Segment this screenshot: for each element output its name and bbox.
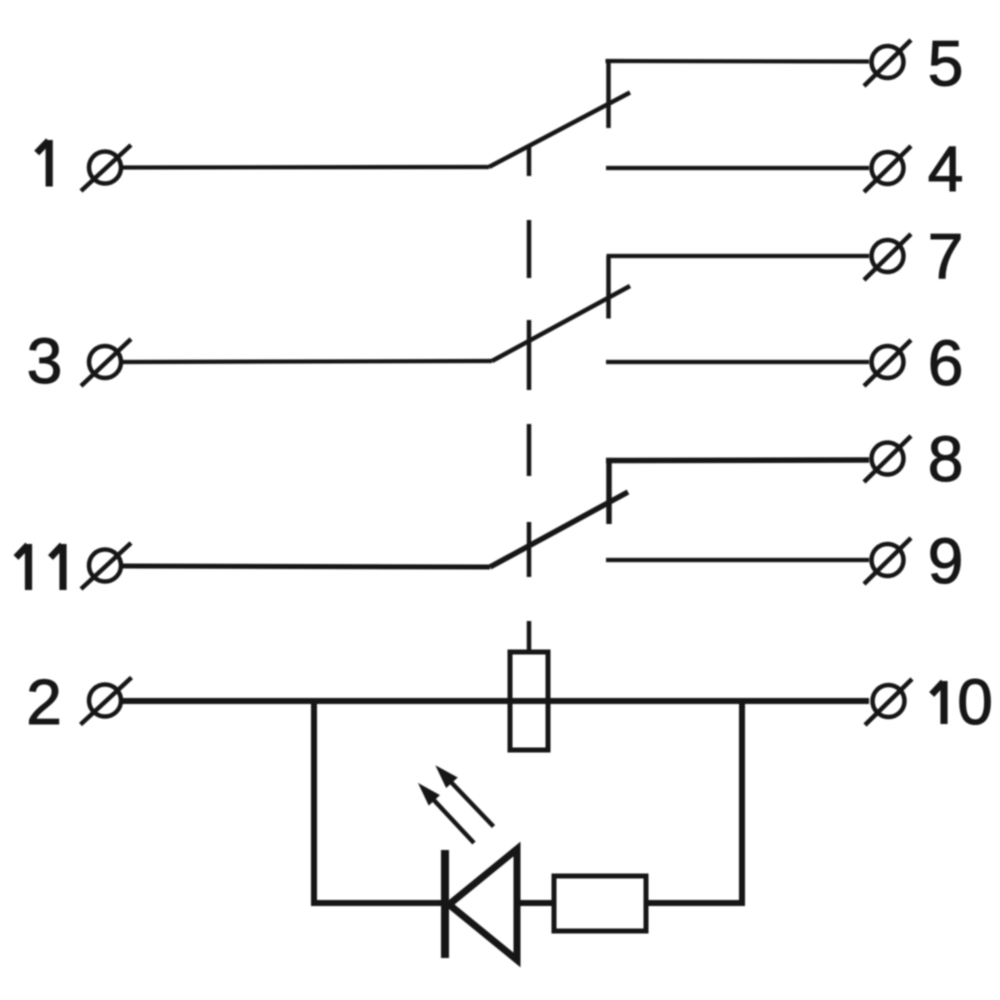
- terminal 9: [864, 538, 911, 584]
- lamp body L1 (vertical rectangle on main wire): [510, 652, 548, 750]
- LED light emission arrow 2: [437, 767, 494, 827]
- svg-text:0: 0: [957, 666, 993, 738]
- svg-text:6: 6: [928, 327, 964, 399]
- svg-text:7: 7: [928, 221, 964, 293]
- LED D1 cathode bar: [441, 850, 449, 958]
- resistor R1: [554, 876, 646, 931]
- wire from terminal 3 to SW2 pivot: [122, 361, 492, 362]
- wire from terminal 1 to SW1 pivot: [122, 165, 489, 170]
- switch SW3 arm (pole 11, thrown to contact 8, bold): [490, 492, 628, 567]
- contact 8 vertical stub (bold): [606, 461, 612, 525]
- terminal 11 slash: [81, 543, 131, 589]
- terminal 4: [864, 146, 911, 192]
- wire from contact stub to terminal 5: [606, 59, 870, 64]
- wire from LED anode to resistor R1: [517, 900, 556, 906]
- switch SW1 arm (pole 1, thrown to contact 5): [489, 93, 630, 168]
- terminal 3 circle: [89, 346, 121, 378]
- svg-text:2: 2: [26, 666, 62, 738]
- svg-text:3: 3: [27, 325, 63, 397]
- LED light emission arrow 1: [419, 784, 474, 843]
- switch SW2 arm (pole 3, thrown to contact 7): [492, 286, 630, 361]
- terminal 1 slash: [81, 145, 131, 191]
- left branch wire down from node on main wire: [311, 698, 317, 906]
- mechanical link dashed line: [527, 145, 532, 650]
- label 11: [16, 544, 63, 590]
- wire from contact stub to terminal 7: [607, 254, 870, 258]
- terminal 7: [864, 234, 911, 280]
- pole switch SW2 common terminal 3: [81, 339, 131, 386]
- svg-text:8: 8: [928, 423, 964, 495]
- terminal 10: [865, 679, 912, 725]
- wire to terminal 9: [606, 558, 869, 562]
- contact 7 vertical stub: [606, 256, 611, 319]
- terminal 5: [864, 40, 911, 86]
- svg-text:5: 5: [928, 28, 964, 100]
- wire from terminal 11 to SW3 pivot (bold): [122, 566, 490, 567]
- wire to terminal 6: [606, 360, 869, 364]
- pole switch SW3 common terminal 11: [81, 543, 131, 589]
- bottom wire from left branch to LED cathode: [311, 900, 443, 906]
- terminal 3 slash: [81, 339, 131, 386]
- terminal 8: [864, 436, 911, 482]
- LED D1 triangle (anode, pointing left): [449, 849, 517, 960]
- contact 5 vertical stub: [606, 61, 611, 128]
- label 10: [932, 681, 944, 724]
- terminal 6: [864, 340, 911, 386]
- pole switch SW1 common terminal 1: [81, 145, 131, 191]
- right branch wire up to main wire: [739, 698, 745, 906]
- wire to terminal 4: [606, 166, 869, 170]
- terminal 1 circle: [89, 152, 121, 184]
- terminal 11 circle: [89, 550, 121, 582]
- main wire from terminal 2 to terminal 10 (bold): [122, 698, 869, 704]
- svg-text:9: 9: [928, 525, 964, 597]
- svg-text:4: 4: [928, 133, 964, 205]
- terminal 2: [81, 678, 132, 725]
- wire from resistor R1 to right branch: [646, 900, 745, 906]
- wire from contact stub to terminal 8 (bold): [606, 457, 869, 463]
- label 1: [37, 140, 50, 187]
